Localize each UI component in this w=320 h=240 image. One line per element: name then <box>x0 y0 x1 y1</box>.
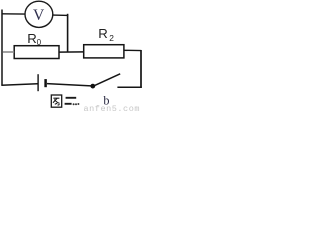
wire: R2 right to corner <box>124 49 141 51</box>
wire: voltmeter right vertical drop <box>67 14 69 53</box>
wire: bottom from battery to switch <box>47 84 91 86</box>
resistor R2 box <box>84 45 124 58</box>
caption glyph: 图 box <box>51 95 61 107</box>
wire: switch fixed contact horizontal <box>117 86 141 88</box>
switch S blade <box>93 74 121 87</box>
caption glyph: 二 top bar <box>66 97 77 99</box>
resistor R0 box <box>14 46 59 59</box>
wire: top-left horizontal to voltmeter <box>2 13 26 15</box>
battery B1 long plate <box>37 74 39 91</box>
voltmeter U1 circle <box>25 1 53 27</box>
svg-text:2: 2 <box>109 33 114 43</box>
wire: right vertical <box>140 50 142 88</box>
resistor R0 left stub (gray) <box>3 51 15 53</box>
wire: left vertical <box>1 10 3 86</box>
switch pivot node dot <box>90 84 95 89</box>
wire: bottom-left from corner to battery <box>1 84 37 86</box>
caption glyph: 二 bottom bar <box>65 103 72 105</box>
wire: voltmeter right horizontal <box>53 14 68 16</box>
caption glyph: trailing dots <box>73 103 75 105</box>
svg-text:V: V <box>33 7 45 24</box>
wire: R0 to R2 <box>59 51 84 53</box>
svg-text:R: R <box>98 26 108 41</box>
svg-text:0: 0 <box>37 38 42 47</box>
battery B1 short plate <box>44 79 47 87</box>
svg-text:anfen5.com: anfen5.com <box>84 104 141 111</box>
caption glyph: 图 inner strokes <box>53 98 60 105</box>
svg-text:R: R <box>27 31 37 46</box>
